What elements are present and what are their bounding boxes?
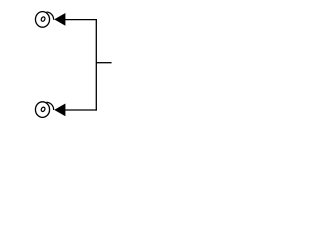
loudspeaker LS1 (top symbol) [35,12,53,28]
LS1 rear driver bump [47,12,54,20]
arrowhead into LS1 [54,13,65,26]
LS2 rear driver bump [47,102,54,110]
wire: vertical bus [95,19,97,111]
wire: top branch horizontal [65,19,97,21]
wire: bottom branch horizontal [65,109,97,111]
LS1 body circle [35,12,49,28]
LS2 inner ring (cone apex) [41,106,46,112]
node stub: mid-bus tap [96,62,111,64]
LS2 body circle [35,102,49,118]
LS1 inner ring (cone apex) [41,16,46,22]
arrowhead into LS2 [54,104,65,117]
loudspeaker LS2 (bottom symbol) [35,102,53,118]
